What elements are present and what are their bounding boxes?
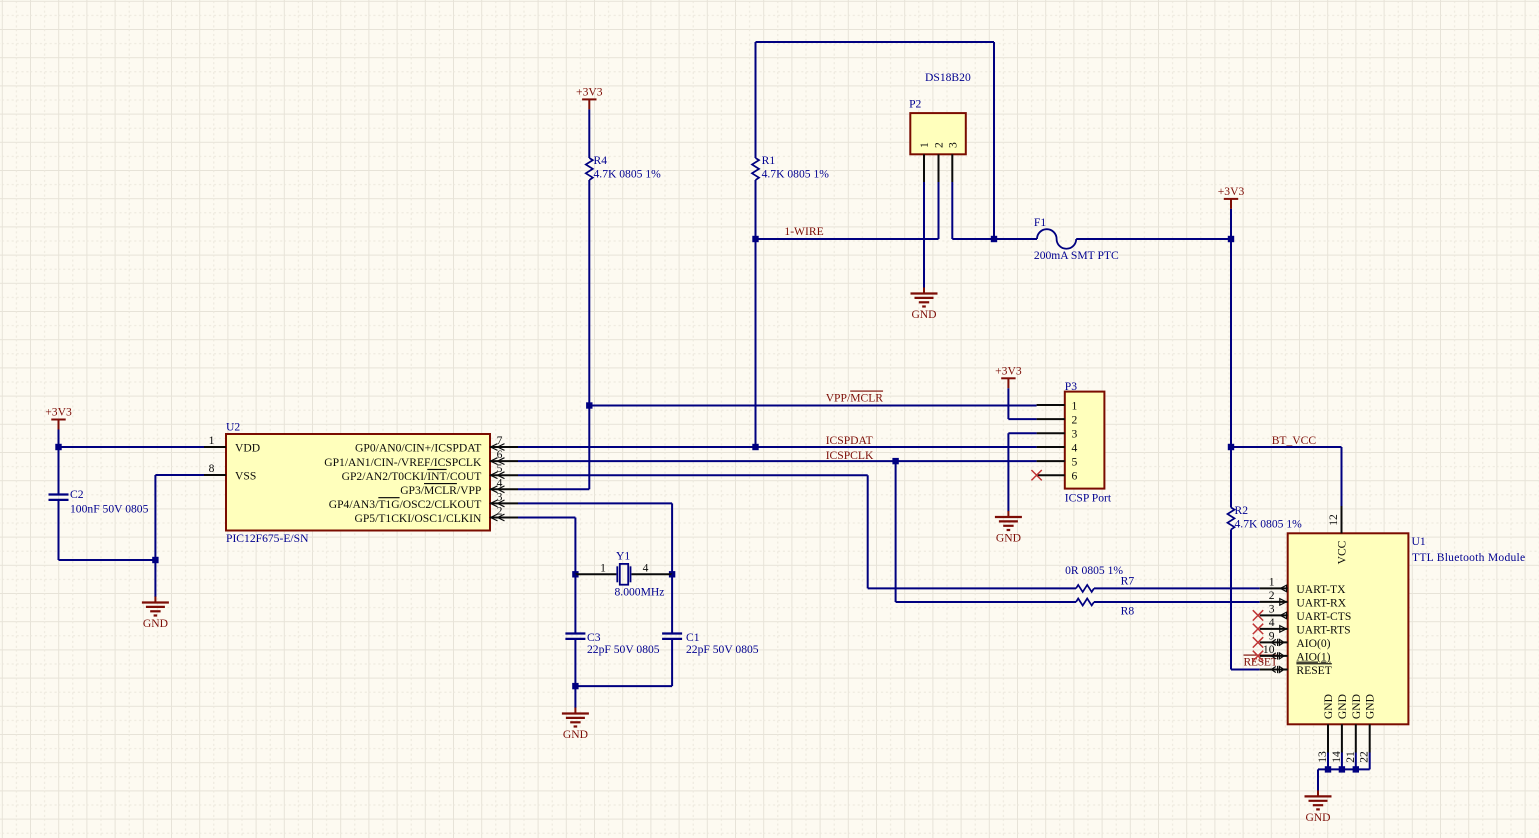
svg-text:3: 3 — [1072, 428, 1078, 441]
node +3V3 right junction — [1228, 236, 1234, 242]
pin 1 VDD — [204, 446, 226, 448]
pin 2 of P2 — [938, 154, 940, 182]
svg-text:UART-CTS: UART-CTS — [1296, 610, 1351, 623]
svg-text:4: 4 — [643, 562, 649, 575]
svg-text:2: 2 — [933, 142, 946, 148]
pin 4 of U1 (UART-RTS) — [1260, 628, 1288, 630]
resistor R2 — [1228, 508, 1235, 530]
svg-text:1: 1 — [209, 434, 215, 447]
svg-text:GND: GND — [996, 532, 1021, 545]
svg-text:14: 14 — [1330, 751, 1343, 763]
svg-text:UART-RTS: UART-RTS — [1296, 624, 1350, 637]
pin 21 GND of U1 — [1355, 724, 1357, 752]
capacitor C1 — [671, 574, 673, 633]
capacitor C3 — [574, 574, 576, 633]
module U1 TTL Bluetooth Module — [1288, 533, 1409, 724]
pin RESET of U1 (<tspan text-decoration="over) — [1260, 669, 1288, 671]
svg-text:VSS: VSS — [235, 470, 256, 483]
svg-text:13: 13 — [1316, 751, 1329, 763]
svg-text:GND: GND — [911, 308, 936, 321]
pin 7 GP0 — [490, 446, 518, 448]
svg-text:3: 3 — [497, 490, 503, 503]
wire VSS to U2 pin 8 — [155, 474, 204, 476]
svg-text:VPP/MCLR: VPP/MCLR — [826, 392, 884, 405]
svg-text:VDD: VDD — [235, 442, 260, 455]
ground GND (P3) — [1007, 511, 1009, 517]
svg-text:4.7K 0805 1%: 4.7K 0805 1% — [762, 168, 830, 181]
wire R4 to VPP node — [588, 180, 590, 406]
pin 3 GP4 — [490, 502, 518, 504]
svg-text:F1: F1 — [1034, 216, 1046, 229]
svg-text:GND: GND — [563, 728, 588, 741]
svg-text:P2: P2 — [909, 98, 921, 111]
pin 2 GP5 — [490, 517, 518, 519]
node GND junction under VSS — [152, 557, 158, 563]
svg-text:+3V3: +3V3 — [45, 406, 72, 419]
svg-text:ICSPDAT: ICSPDAT — [826, 434, 873, 447]
svg-text:ICSPCLK: ICSPCLK — [826, 449, 874, 462]
wire fuse to +3V3 node — [1076, 238, 1231, 240]
svg-text:2: 2 — [497, 505, 503, 518]
svg-text:R1: R1 — [762, 154, 776, 167]
pin 3 of P2 — [951, 154, 953, 182]
node 1-WIRE junction — [752, 236, 758, 242]
wire net BT_VCC to U1 VCC pin 12 — [1231, 446, 1342, 448]
ground GND (P2) — [923, 288, 925, 294]
node crystal ground junction — [572, 683, 578, 689]
resistor R8 — [1076, 599, 1094, 606]
svg-text:4: 4 — [497, 476, 503, 489]
svg-text:U2: U2 — [226, 421, 240, 434]
pin 5 of P3 — [1037, 460, 1065, 462]
wire net 1-WIRE to P2 pin 2 — [756, 238, 939, 240]
pin 6 of P3 — [1037, 474, 1065, 476]
pin 22 GND of U1 — [1369, 724, 1371, 752]
no-ERC mark P3 pin 6 — [1031, 470, 1041, 480]
wire junction down to ground — [154, 560, 156, 597]
no-ERC mark U1 pin 3 — [1253, 610, 1263, 620]
wire top rail R1 to DS18B20 VDD — [756, 41, 995, 43]
svg-text:5: 5 — [1072, 455, 1078, 468]
svg-text:2: 2 — [1072, 413, 1078, 426]
wire VDD node up to top rail — [993, 42, 995, 239]
svg-text:R2: R2 — [1235, 504, 1249, 517]
connector P2 DS18B20 — [910, 113, 966, 154]
wire ground rail down — [1317, 769, 1319, 791]
svg-text:GND: GND — [1364, 694, 1377, 719]
wire GP5 to crystal left — [518, 517, 575, 519]
pin 3 of U1 (UART-CTS) — [1260, 614, 1288, 616]
svg-text:VCC: VCC — [1336, 540, 1349, 564]
svg-text:GND: GND — [1305, 811, 1330, 824]
svg-text:GND: GND — [143, 617, 168, 630]
wire +3V3 node down to BT_VCC node — [1230, 239, 1232, 447]
pin 2 of P3 — [1037, 418, 1065, 420]
svg-text:P3: P3 — [1065, 380, 1077, 393]
svg-text:GND: GND — [1322, 694, 1335, 719]
svg-text:0R 0805 1%: 0R 0805 1% — [1065, 564, 1123, 577]
svg-text:1: 1 — [1072, 399, 1078, 412]
pin 4 of P3 — [1037, 446, 1065, 448]
svg-text:GP4/AN3/T1G/OSC2/CLKOUT: GP4/AN3/T1G/OSC2/CLKOUT — [329, 498, 482, 511]
wire VDD node to U2 pin 1 — [59, 446, 205, 448]
pin 1 of P3 — [1037, 404, 1065, 406]
svg-text:RESET: RESET — [1296, 664, 1331, 677]
svg-text:GP5/T1CKI/OSC1/CLKIN: GP5/T1CKI/OSC1/CLKIN — [354, 512, 482, 525]
svg-text:GND: GND — [1336, 694, 1349, 719]
wire P2 pin 3 to VDD node — [951, 182, 953, 239]
pin 3 of P3 — [1037, 432, 1065, 434]
node VPP junction — [586, 402, 592, 408]
node crystal right junction — [669, 571, 675, 577]
pin 10 of U1 (<tspan text-decoration="unde) — [1260, 655, 1288, 657]
wire BT_VCC node down to R2 — [1230, 447, 1232, 508]
wire P3 pin 3 to ground — [1008, 432, 1036, 434]
svg-text:UART-RX: UART-RX — [1296, 597, 1346, 610]
resistor R4 — [586, 158, 593, 180]
svg-text:1: 1 — [918, 142, 931, 148]
svg-text:DS18B20: DS18B20 — [925, 71, 971, 84]
wire ICSPCLK down to R8 — [895, 461, 897, 602]
node ICSPDAT junction with 1-WIRE pullup — [752, 444, 758, 450]
crystal Y1 8.000MHz — [575, 573, 616, 575]
svg-text:Y1: Y1 — [616, 550, 630, 563]
svg-text:GP2/AN2/T0CKI/INT/COUT: GP2/AN2/T0CKI/INT/COUT — [342, 470, 482, 483]
svg-text:BT_VCC: BT_VCC — [1272, 434, 1317, 447]
svg-text:AIO(1): AIO(1) — [1296, 651, 1330, 664]
svg-text:+3V3: +3V3 — [576, 86, 603, 99]
svg-text:8: 8 — [209, 462, 215, 475]
node DS18B20 VDD junction — [991, 236, 997, 242]
wire R1 top — [755, 42, 757, 158]
svg-text:6: 6 — [497, 448, 503, 461]
svg-text:+3V3: +3V3 — [1218, 185, 1245, 198]
ic U2 PIC12F675-E/SN — [226, 434, 490, 531]
svg-text:UART-TX: UART-TX — [1296, 583, 1346, 596]
svg-text:4.7K 0805 1%: 4.7K 0805 1% — [1235, 518, 1303, 531]
pin 9 of U1 (AIO(0)) — [1260, 641, 1288, 643]
svg-text:4: 4 — [1269, 616, 1275, 629]
svg-text:U1: U1 — [1412, 535, 1426, 548]
svg-text:100nF 50V 0805: 100nF 50V 0805 — [70, 503, 149, 516]
wire crystal caps ground rail — [575, 685, 672, 687]
svg-text:R8: R8 — [1121, 605, 1135, 618]
resistor R7 — [1076, 585, 1094, 592]
wire GP2 to UART-TX via R7 — [518, 474, 868, 476]
ground GND (C2) — [154, 597, 156, 603]
wire 1-WIRE node down to ICSPDAT net — [755, 239, 757, 447]
pin 5 GP2 — [490, 474, 518, 476]
fuse F1 200mA SMT PTC — [1037, 229, 1076, 249]
svg-text:3: 3 — [1269, 603, 1275, 616]
svg-text:3: 3 — [946, 142, 959, 148]
svg-text:ICSP Port: ICSP Port — [1065, 492, 1112, 505]
svg-text:PIC12F675-E/SN: PIC12F675-E/SN — [226, 532, 309, 545]
svg-text:12: 12 — [1327, 514, 1340, 526]
svg-text:GP0/AN0/CIN+/ICSPDAT: GP0/AN0/CIN+/ICSPDAT — [355, 442, 481, 455]
wire VSS drop — [154, 475, 156, 560]
svg-text:22: 22 — [1358, 751, 1371, 763]
wire +3V3 stub to node — [1230, 209, 1232, 239]
wire VPP junction down to GP3 pin — [588, 406, 590, 490]
svg-text:GND: GND — [1350, 694, 1363, 719]
svg-text:1-WIRE: 1-WIRE — [784, 225, 823, 238]
svg-text:TTL Bluetooth Module: TTL Bluetooth Module — [1412, 551, 1525, 564]
node ground junction pin 14 — [1339, 766, 1345, 772]
svg-text:AIO(0): AIO(0) — [1296, 637, 1330, 650]
svg-text:6: 6 — [1072, 470, 1078, 483]
pin 12 VCC — [1341, 506, 1343, 533]
wire GP4 to crystal right — [518, 502, 672, 504]
wire C2 bottom to GND rail — [59, 559, 156, 561]
wire net VPP/MCLR to P3 pin 1 — [589, 405, 1036, 407]
svg-text:7: 7 — [497, 434, 503, 447]
pin 1 of U1 (UART-TX) — [1260, 587, 1288, 589]
svg-text:4.7K 0805 1%: 4.7K 0805 1% — [594, 168, 662, 181]
svg-text:200mA SMT PTC: 200mA SMT PTC — [1034, 249, 1119, 262]
pin 8 VSS — [204, 474, 226, 476]
wire R2 bottom to RESET pin — [1230, 530, 1232, 670]
wire U1 ground rail — [1318, 768, 1370, 770]
svg-text:R4: R4 — [594, 154, 608, 167]
pin 1 of P2 — [923, 154, 925, 182]
wire VDD node to fuse F1 — [994, 238, 1037, 240]
node ICSPCLK junction — [892, 458, 898, 464]
svg-text:C2: C2 — [70, 488, 84, 501]
node VDD junction at C2 top — [55, 444, 61, 450]
no-ERC mark U1 pin 4 — [1253, 624, 1263, 634]
svg-text:21: 21 — [1344, 751, 1357, 763]
resistor R1 — [752, 158, 759, 180]
wire P2 pin 1 to ground — [923, 182, 925, 288]
wire +3V3 to P3 pin 2 — [1007, 388, 1009, 419]
svg-text:22pF 50V 0805: 22pF 50V 0805 — [686, 643, 759, 656]
svg-text:1: 1 — [600, 562, 606, 575]
ground GND (U1) — [1317, 790, 1319, 796]
pin 13 GND of U1 — [1327, 724, 1329, 752]
connector P3 ICSP Port — [1065, 392, 1105, 489]
svg-text:8.000MHz: 8.000MHz — [615, 586, 665, 599]
wire +3V3 to R4 — [588, 109, 590, 158]
svg-text:+3V3: +3V3 — [995, 365, 1022, 378]
svg-text:1: 1 — [1269, 576, 1275, 589]
ground GND (crystal) — [574, 708, 576, 714]
wire net ICSPCLK (GP1 to P3 pin 5) — [518, 460, 1037, 462]
node crystal left junction — [572, 571, 578, 577]
node ground junction pin 21 — [1353, 766, 1359, 772]
wire R1 bottom to 1-WIRE node — [755, 180, 757, 239]
svg-text:4: 4 — [1072, 441, 1078, 454]
pin 6 GP1 — [490, 460, 518, 462]
pin 4 GP3 — [490, 488, 518, 490]
svg-text:5: 5 — [497, 462, 503, 475]
no-ERC mark U1 pin 9 — [1253, 637, 1263, 647]
wire net ICSPDAT (GP0 to P3 pin 4) — [518, 446, 1037, 448]
capacitor C2 — [58, 447, 60, 495]
wire +3V3 down to VDD node — [58, 430, 60, 448]
pin 14 GND of U1 — [1341, 724, 1343, 752]
svg-text:22pF 50V 0805: 22pF 50V 0805 — [587, 643, 660, 656]
svg-text:GP3/MCLR/VPP: GP3/MCLR/VPP — [400, 484, 481, 497]
pin 2 of U1 (UART-RX) — [1260, 601, 1288, 603]
node ground junction pin 13 — [1325, 766, 1331, 772]
svg-text:GP1/AN1/CIN-/VREF/ICSPCLK: GP1/AN1/CIN-/VREF/ICSPCLK — [324, 456, 482, 469]
no-ERC mark U1 pin 10 — [1253, 651, 1263, 661]
svg-text:2: 2 — [1269, 589, 1275, 602]
node BT_VCC junction — [1228, 444, 1234, 450]
